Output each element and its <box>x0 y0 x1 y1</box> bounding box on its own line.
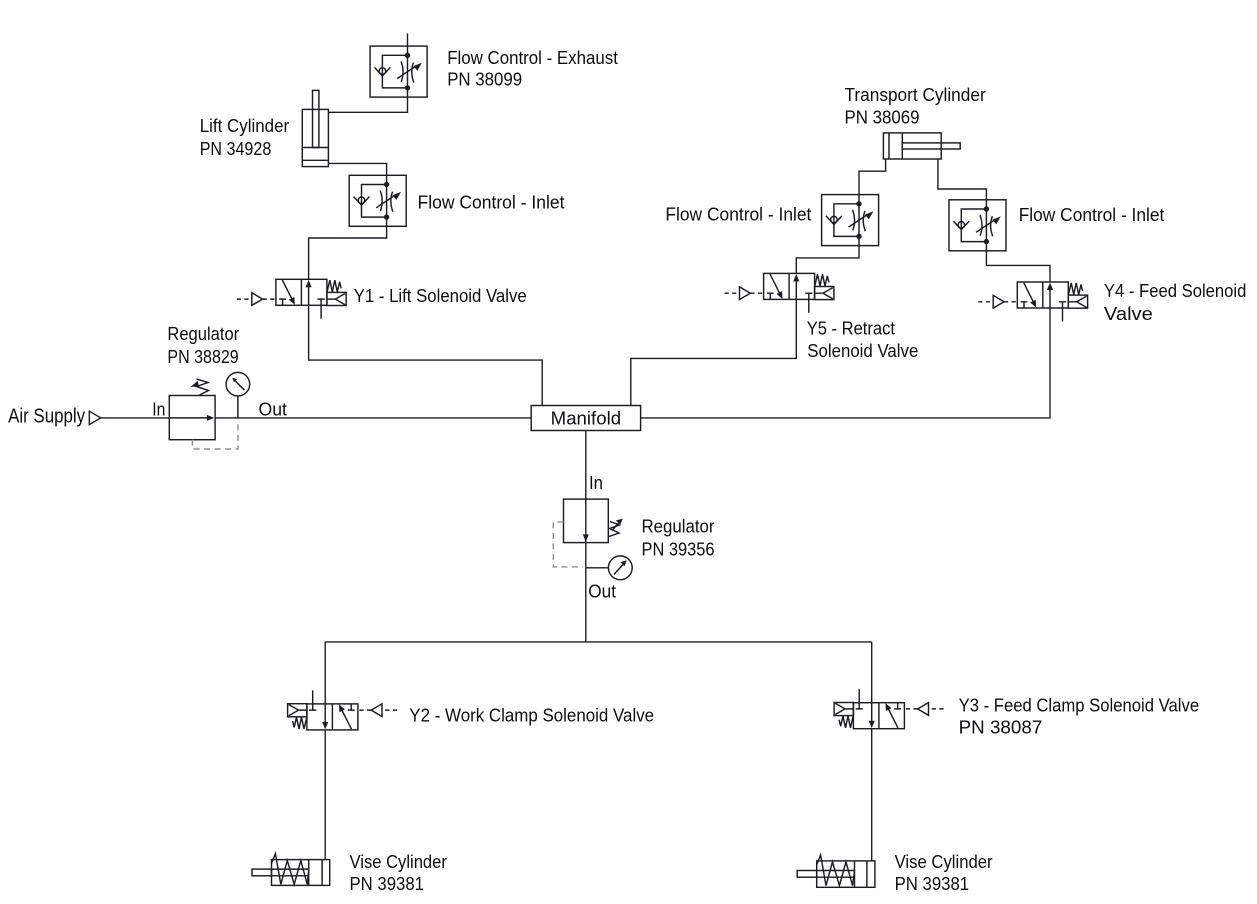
svg-text:PN 39381: PN 39381 <box>895 874 970 894</box>
svg-text:Valve: Valve <box>1104 304 1153 324</box>
wire exhaust stub above flow control FC1 <box>407 33 409 46</box>
svg-text:Out: Out <box>259 400 287 420</box>
svg-text:Regulator: Regulator <box>167 324 239 344</box>
wire lift cylinder bottom port to FC2 top <box>328 163 386 175</box>
svg-text:PN 34928: PN 34928 <box>200 139 272 159</box>
svg-text:Y4 - Feed Solenoid: Y4 - Feed Solenoid <box>1104 281 1247 301</box>
flow control FC4 Flow Control - Inlet (feed) <box>949 200 1006 251</box>
regulator R1 feedback dashed line <box>192 421 238 449</box>
svg-text:Y5 - Retract: Y5 - Retract <box>807 319 895 339</box>
wire distribution to valve Y3 top <box>871 642 873 703</box>
svg-text:In: In <box>589 473 603 493</box>
svg-text:Solenoid Valve: Solenoid Valve <box>807 341 918 361</box>
wire FC4 bottom to valve Y4 top <box>986 251 1050 282</box>
lift cylinder PN 34928 <box>302 90 328 166</box>
svg-text:Regulator: Regulator <box>642 516 715 536</box>
flow control FC3 Flow Control - Inlet (retract) <box>822 195 879 246</box>
regulator R2 PN 39356 <box>564 499 623 542</box>
svg-text:Air Supply: Air Supply <box>8 406 85 428</box>
wire valve Y3 bottom to right vise cylinder port <box>871 729 873 861</box>
svg-text:Vise Cylinder: Vise Cylinder <box>350 852 447 872</box>
svg-text:PN 38829: PN 38829 <box>167 347 238 367</box>
wire FC3 bottom to valve Y5 top <box>796 246 859 274</box>
vise cylinder left PN 39381 <box>252 854 330 886</box>
svg-text:Y1 - Lift Solenoid Valve: Y1 - Lift Solenoid Valve <box>354 286 527 306</box>
svg-text:Flow Control - Exhaust: Flow Control - Exhaust <box>447 48 618 68</box>
vise cylinder right PN 39381 <box>797 855 875 887</box>
svg-text:Flow Control - Inlet: Flow Control - Inlet <box>418 193 565 213</box>
wire transport cylinder right port to FC4 top <box>938 159 987 200</box>
air supply arrow <box>89 411 100 424</box>
pressure gauge G2 <box>586 556 632 580</box>
svg-text:PN 38099: PN 38099 <box>447 70 522 90</box>
svg-text:Manifold: Manifold <box>551 408 621 428</box>
solenoid valve Y1 <box>237 279 346 319</box>
svg-text:Vise Cylinder: Vise Cylinder <box>895 852 993 872</box>
svg-text:Flow Control - Inlet: Flow Control - Inlet <box>1019 205 1165 225</box>
flow control FC1 Flow Control - Exhaust PN 38099 <box>370 46 427 97</box>
svg-text:PN 39381: PN 39381 <box>350 874 425 894</box>
wire transport cylinder left port to FC3 top <box>859 159 886 195</box>
regulator R2 feedback dashed line <box>553 522 583 567</box>
svg-text:PN 38087: PN 38087 <box>959 718 1043 738</box>
wire manifold bottom through regulator R2 to distribution line <box>585 431 587 642</box>
svg-text:Transport Cylinder: Transport Cylinder <box>845 85 986 105</box>
wire manifold right to valve Y4 bottom <box>641 308 1050 418</box>
svg-text:In: In <box>152 400 165 420</box>
wire manifold top-right to valve Y5 bottom <box>631 299 797 405</box>
solenoid valve Y2 <box>288 690 397 730</box>
manifold <box>531 406 640 431</box>
wire FC1 bottom to lift cylinder top port <box>328 97 407 112</box>
svg-text:Y3 - Feed Clamp Solenoid Valve: Y3 - Feed Clamp Solenoid Valve <box>959 695 1200 715</box>
wire regulator R1 outlet to manifold left <box>215 417 531 419</box>
solenoid valve Y5 <box>725 273 834 313</box>
pressure gauge G1 <box>226 372 250 417</box>
solenoid valve Y4 <box>978 282 1087 322</box>
svg-text:PN 38069: PN 38069 <box>845 107 920 127</box>
wire valve Y2 bottom to left vise cylinder port <box>324 730 326 860</box>
svg-text:Lift Cylinder: Lift Cylinder <box>200 116 290 136</box>
solenoid valve Y3 <box>834 689 943 729</box>
svg-text:PN 39356: PN 39356 <box>642 539 715 559</box>
svg-text:Flow Control - Inlet: Flow Control - Inlet <box>665 204 811 224</box>
wire valve Y1 bottom to manifold top-left <box>309 305 543 405</box>
regulator R1 PN 38829 <box>169 379 215 440</box>
svg-text:Y2 - Work Clamp Solenoid Valve: Y2 - Work Clamp Solenoid Valve <box>409 706 654 726</box>
wire FC2 bottom to valve Y1 top <box>309 226 387 279</box>
wire bottom distribution line <box>325 641 872 643</box>
wire distribution to valve Y2 top <box>324 642 326 704</box>
svg-text:Out: Out <box>588 582 616 602</box>
wire air supply to regulator R1 inlet <box>101 417 170 419</box>
flow control FC2 Flow Control - Inlet (lift) <box>349 175 406 226</box>
transport cylinder PN 38069 <box>883 133 960 159</box>
